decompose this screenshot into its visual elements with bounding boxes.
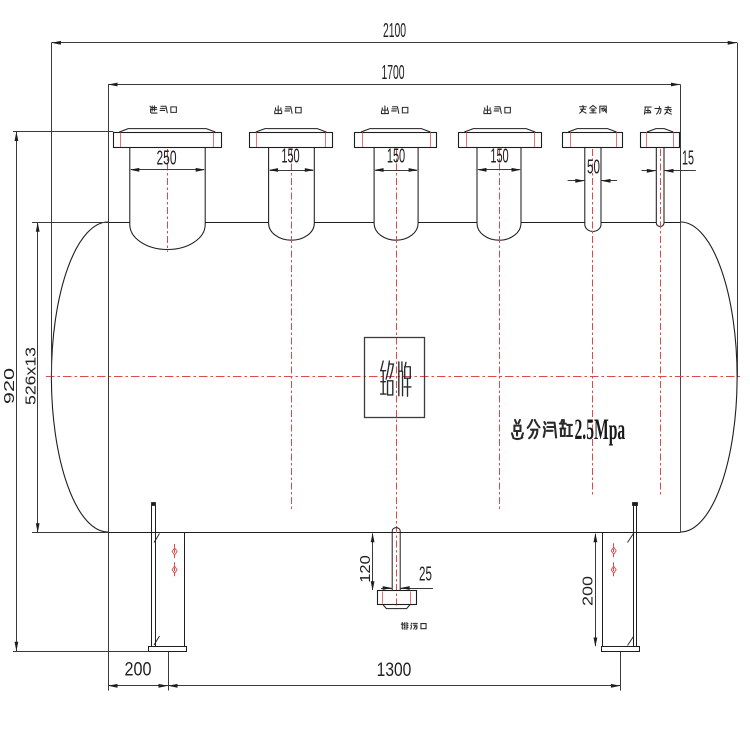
nozzle N1 centerline: [167, 149, 169, 252]
drain dim 120 line: [372, 534, 374, 591]
tank left elliptical head: [51, 222, 108, 532]
svg-text:50: 50: [587, 156, 600, 178]
title text zongfenqigang CJK part: [512, 420, 523, 439]
nozzle N4 centerline: [499, 149, 501, 510]
svg-text:1300: 1300: [377, 659, 412, 681]
left support red bolt marks: [174, 544, 176, 559]
ext line right support center: [620, 652, 622, 691]
drain tube: [392, 533, 400, 592]
label jinqikou N1: [150, 106, 157, 113]
right support weld tick bottom: [628, 636, 634, 646]
svg-text:1700: 1700: [381, 62, 404, 83]
label chuqikou N4: [484, 106, 491, 114]
nozzle N4 outlet flange+neck: [464, 129, 535, 132]
left support plate top cap: [152, 503, 156, 506]
right support red bolt marks: [613, 543, 615, 558]
nozzle N5 safety valve flange+neck: [568, 129, 617, 132]
svg-text:150: 150: [387, 145, 405, 167]
tank right elliptical head: [681, 222, 738, 532]
svg-text:150: 150: [490, 145, 508, 167]
svg-text:120: 120: [358, 555, 374, 583]
right support web: [602, 532, 604, 647]
nozzle N2 dim 150 arrows: [270, 170, 313, 172]
svg-text:200: 200: [125, 658, 152, 680]
nozzle N4 dim 150 arrows: [478, 169, 520, 171]
tank left seam line: [108, 222, 110, 532]
nameplate text mingpai: [381, 361, 394, 395]
left support weld tick bottom: [154, 636, 160, 645]
drain flange red ticks: [382, 592, 384, 604]
tank horizontal centerline: [46, 376, 742, 378]
nozzle N6 centerline: [660, 149, 662, 495]
dim 200 bottom line: [108, 685, 168, 687]
tank shell top line (with gaps at nozzles): [108, 222, 130, 224]
nozzle N3 centerline (continues to drain): [396, 149, 398, 609]
drain flange: [378, 591, 417, 605]
drain tube tip arc above bottom line: [392, 528, 400, 533]
dim 1700 line: [108, 84, 681, 86]
nozzle N3 dim 150 arrows: [375, 170, 417, 172]
nozzle N6 pressure gauge flange+neck: [647, 129, 673, 132]
nozzle N1 inlet flange+neck: [119, 129, 215, 132]
drain dim 25 arrows: [381, 588, 392, 590]
svg-text:15: 15: [682, 147, 694, 169]
svg-text:200: 200: [579, 576, 596, 606]
svg-text:25: 25: [419, 563, 432, 585]
label chuqikou N2: [275, 106, 282, 114]
nozzle N3 outlet flange+neck: [361, 129, 430, 132]
nozzle N1 dim 250 arrows: [131, 169, 204, 171]
extension line left 1700/bottom dims: [108, 85, 110, 691]
tank right seam line: [680, 222, 682, 532]
nozzle N5 dim 50 outside arrows: [568, 180, 585, 182]
ext line base bottom to 920: [13, 651, 149, 653]
dim 920 line: [16, 132, 18, 652]
ext line tank bottom to 526: [32, 532, 108, 534]
left support outer thin plate: [151, 506, 153, 648]
nozzle N2 outlet flange+neck: [256, 129, 326, 132]
nameplate box: [365, 338, 425, 418]
extension line left 2100: [51, 43, 53, 380]
right support base plate: [602, 647, 640, 652]
nozzle N5 centerline: [592, 149, 594, 497]
dim 1300 line: [168, 685, 620, 687]
ext line left support center: [168, 652, 170, 691]
left support weld tick top: [154, 534, 160, 543]
svg-text:2100: 2100: [383, 21, 406, 42]
label yalibiao N6: [644, 107, 651, 114]
extension line right 2100: [737, 43, 739, 378]
svg-text:526x13: 526x13: [23, 347, 39, 405]
tank shell bottom line: [108, 532, 681, 534]
nozzle N2 centerline: [291, 149, 293, 510]
right support dim 200 line: [595, 534, 597, 646]
dim 526x13 line: [37, 222, 39, 532]
nozzle N6 dim 15 outside arrows: [642, 170, 657, 172]
label chuqikou N3: [381, 106, 388, 114]
dim 2100 line: [51, 42, 737, 44]
svg-text:250: 250: [156, 148, 176, 170]
right support plate top cap: [633, 503, 638, 506]
svg-text:2.5Mpa: 2.5Mpa: [575, 414, 626, 447]
ext line flange top to 920: [13, 131, 113, 133]
right support outer thin plate: [633, 506, 635, 648]
ext line tank top to 526: [32, 222, 108, 224]
left support web: [184, 532, 186, 647]
label paiwukou drain: [401, 622, 408, 629]
right support weld tick top: [628, 533, 634, 543]
extension line right 1700: [680, 85, 682, 223]
svg-text:150: 150: [281, 145, 299, 167]
label anquanfa N5: [580, 105, 587, 113]
svg-text:920: 920: [0, 368, 17, 404]
left support base plate: [149, 647, 187, 652]
drain cover below flange: [382, 604, 410, 609]
